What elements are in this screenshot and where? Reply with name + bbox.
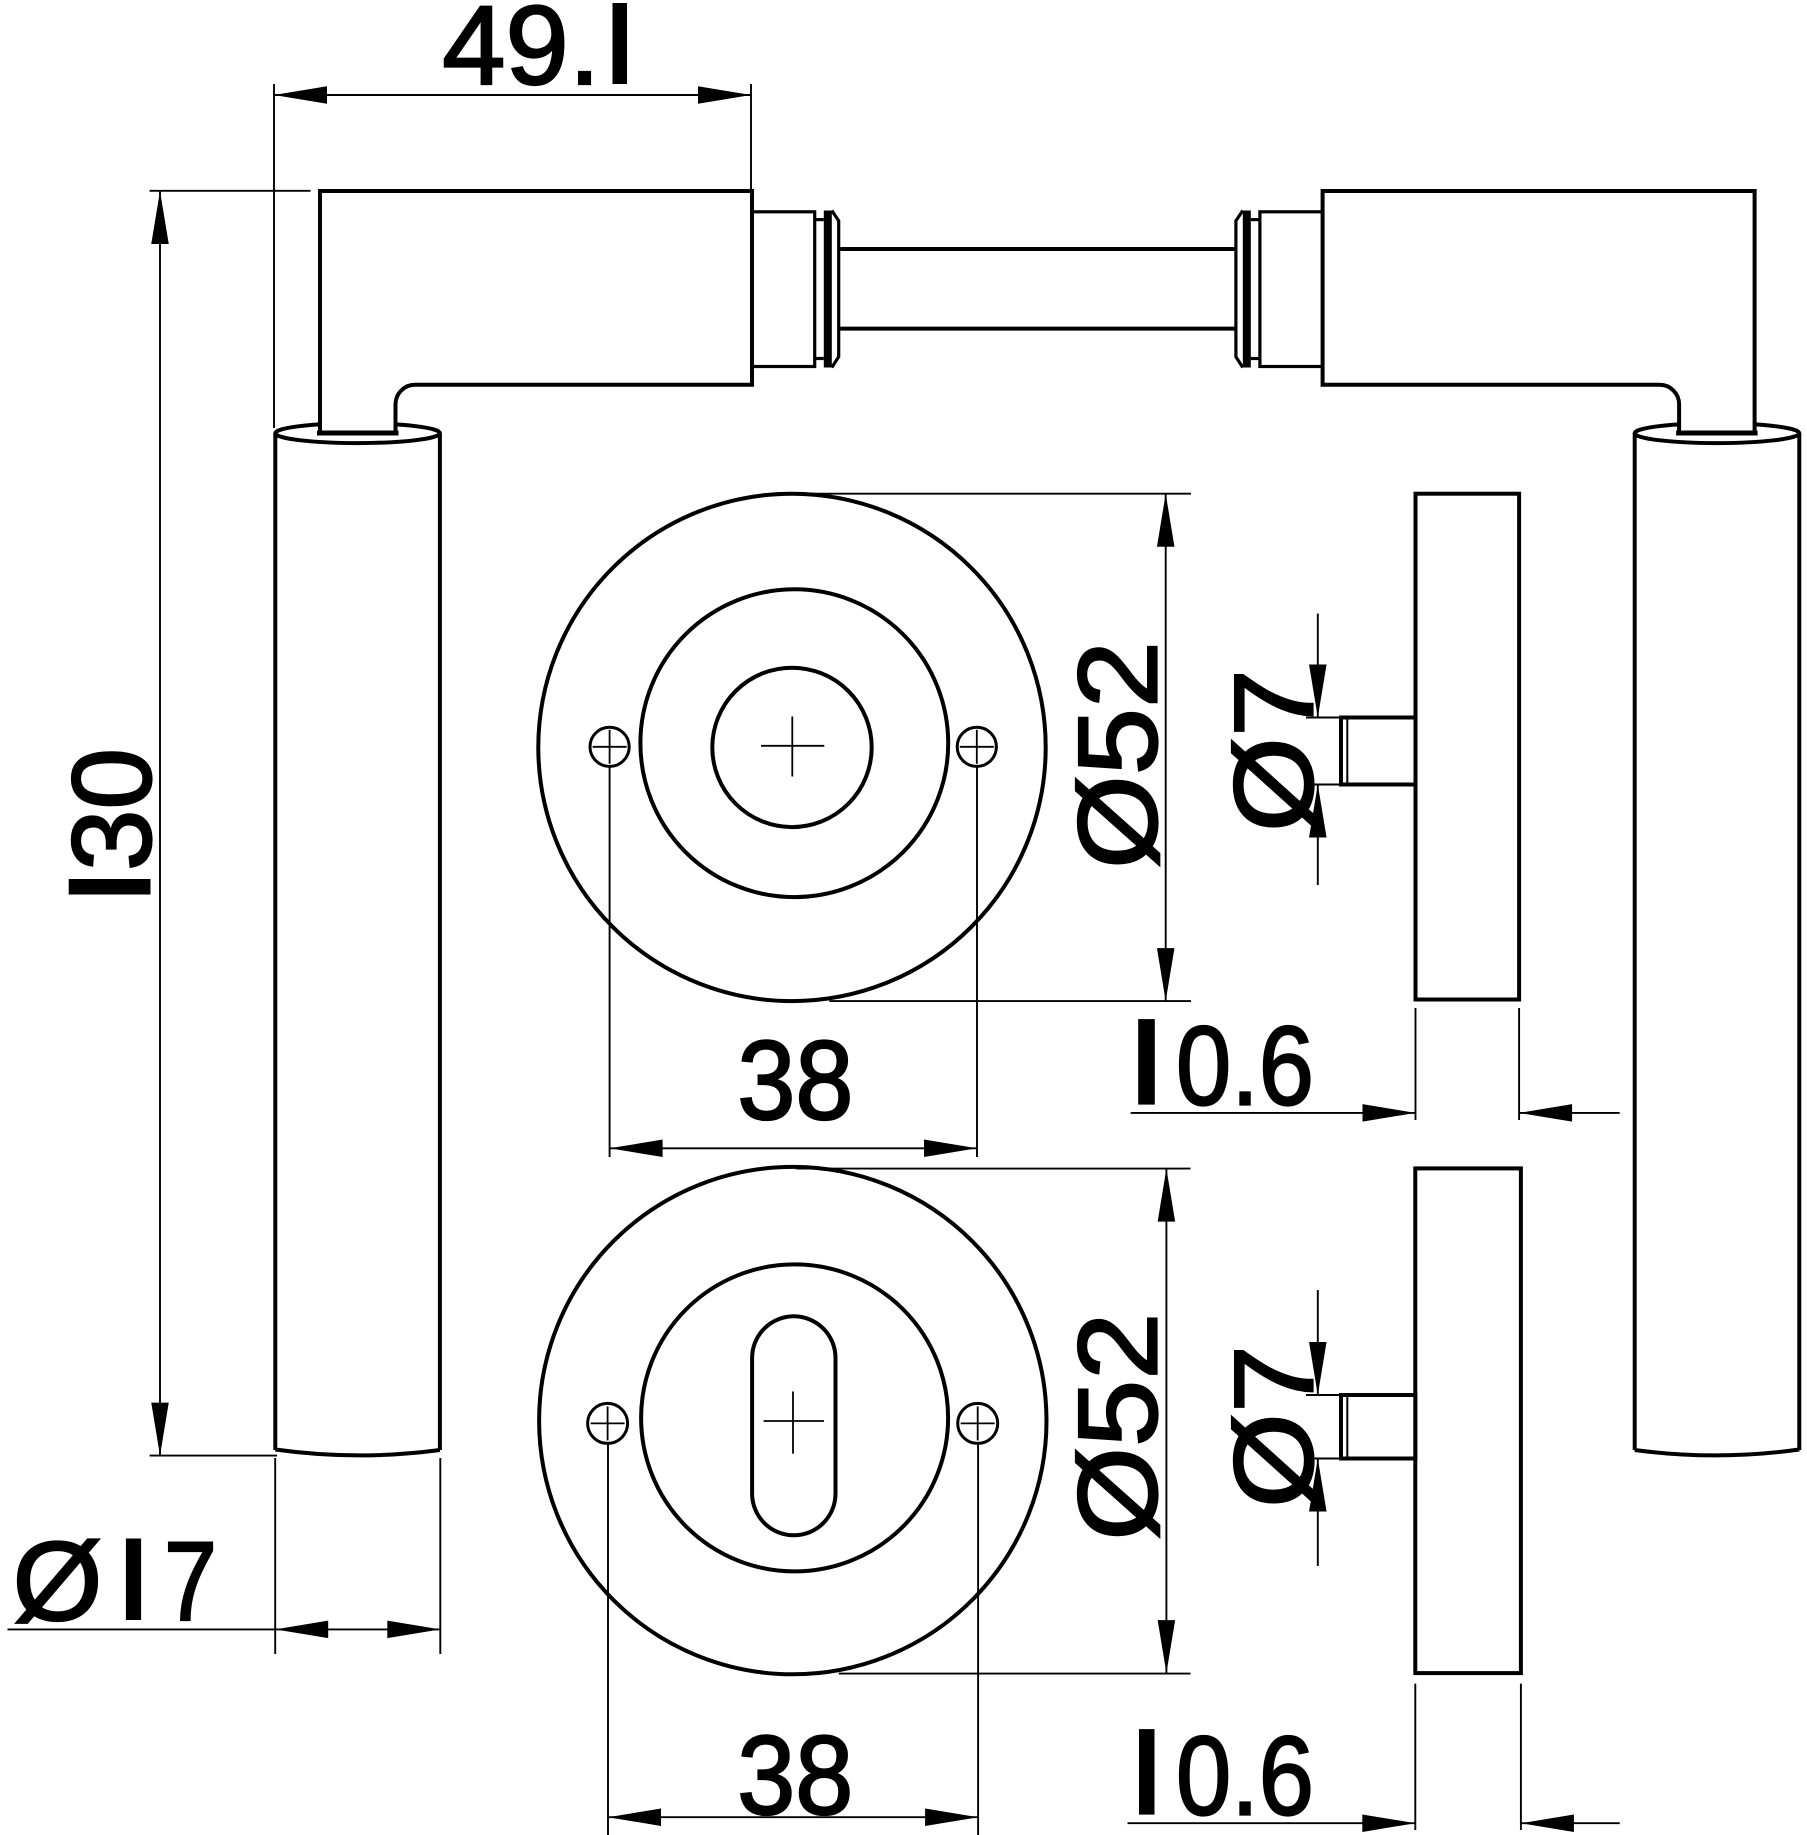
svg-text:49.: 49. [442, 0, 600, 108]
svg-text:0.6: 0.6 [1176, 1004, 1314, 1129]
dim 38 upper [610, 767, 977, 1157]
lower rosette middle circle [641, 1264, 948, 1571]
spindle [839, 247, 1236, 251]
left lever handle [320, 191, 752, 433]
dim 10.6 upper [1131, 1004, 1620, 1129]
svg-text:0.6: 0.6 [1176, 1714, 1314, 1835]
left washer [824, 211, 832, 368]
upper stub [1306, 718, 1416, 785]
upper rosette outer circle [538, 494, 1045, 1001]
svg-text:Ø7: Ø7 [1212, 1345, 1337, 1508]
lower keyhole oval [752, 1316, 835, 1535]
right collar [1260, 212, 1323, 367]
dim O52 lower [796, 1169, 1190, 1674]
lower left screw [588, 1403, 628, 1443]
right step ring [1251, 218, 1260, 221]
svg-text:38: 38 [737, 1713, 853, 1835]
lower stub [1306, 1395, 1415, 1459]
svg-text:Ø: Ø [13, 1519, 103, 1644]
lower side rosette [1415, 1168, 1521, 1673]
right neck base [1676, 431, 1758, 436]
right grip tube [1635, 433, 1800, 1455]
left chamfer ring [832, 211, 839, 368]
left grip tube [275, 433, 440, 1455]
left collar [752, 212, 815, 367]
svg-text:Ø7: Ø7 [1212, 669, 1337, 832]
lower rosette center cross [764, 1392, 824, 1454]
dim 130 [50, 191, 311, 1456]
left step ring [815, 218, 824, 221]
dim O7 upper [1212, 614, 1337, 885]
lower rosette outer circle [539, 1167, 1046, 1674]
left grip tube ellipse [275, 423, 440, 443]
dim 38 lower [608, 1443, 978, 1835]
svg-text:Ø52: Ø52 [1056, 1313, 1181, 1541]
svg-text:7: 7 [164, 1519, 217, 1644]
dim 10.6 lower [1128, 1684, 1620, 1835]
lower right screw [958, 1403, 998, 1443]
upper left screw [590, 727, 629, 766]
right washer [1243, 211, 1251, 368]
left neck base [317, 431, 399, 436]
right chamfer ring [1236, 211, 1243, 368]
dim 49.1 [274, 0, 751, 428]
upper side rosette [1416, 494, 1520, 1000]
svg-text:38: 38 [737, 1018, 853, 1143]
dim O17 [8, 1458, 441, 1654]
right lever handle [1323, 191, 1755, 433]
svg-text:30: 30 [50, 748, 175, 871]
dim O52 upper [793, 494, 1192, 1001]
dim O7 lower [1212, 1290, 1337, 1566]
right grip tube ellipse [1635, 423, 1800, 443]
upper right screw [957, 727, 996, 766]
svg-text:Ø52: Ø52 [1056, 641, 1181, 869]
upper rosette center cross [761, 717, 824, 777]
upper rosette inner hole [712, 668, 871, 827]
upper rosette middle circle [640, 589, 948, 897]
